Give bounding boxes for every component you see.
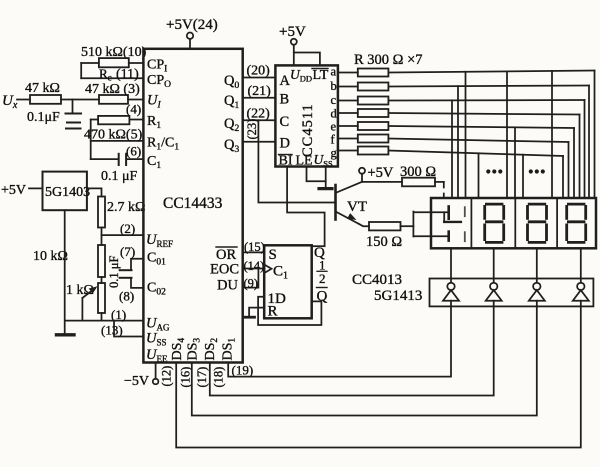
svg-text:(11): (11)	[116, 67, 139, 82]
wire pin11 row CPo	[81, 77, 143, 79]
svg-text:R 300 Ω ×7: R 300 Ω ×7	[354, 52, 423, 68]
svg-text:b: b	[331, 79, 337, 93]
clock triangle input C1	[264, 265, 271, 274]
wire segment drop digit2 from row a	[465, 72, 467, 198]
resistor Rf 300 with wires row f	[338, 138, 358, 140]
resistor 10k	[98, 245, 105, 277]
wire USS to ground	[325, 167, 327, 188]
svg-text:+5V(24): +5V(24)	[166, 17, 218, 33]
wire DS1 to driver 1	[228, 306, 451, 376]
capacitor 0.1uF between C01 and C02	[131, 259, 143, 269]
svg-text:+5V: +5V	[1, 183, 26, 198]
resistor Ra 300 with wires row a	[338, 72, 358, 74]
svg-text:(9): (9)	[244, 277, 259, 291]
wire segment drop digit2 from row g	[478, 153, 480, 198]
wire display common 4 to driver 4	[580, 248, 582, 282]
svg-text:(15): (15)	[244, 240, 265, 254]
ellipsis dots omitted wires digit3	[529, 169, 545, 173]
svg-text:C: C	[280, 114, 290, 130]
transistor VT collector	[337, 182, 362, 193]
wire 1k bottom to AG rail	[101, 313, 103, 321]
svg-text:47 kΩ (3): 47 kΩ (3)	[85, 82, 140, 97]
driver array body	[430, 279, 594, 307]
wire DS3 to driver 3	[192, 306, 537, 415]
seven segment digit 1	[485, 204, 504, 242]
wire Rc loop left vertical	[80, 63, 82, 78]
wire 10k to 1k	[101, 277, 103, 283]
resistor Rc300 with wires row c	[338, 100, 358, 102]
svg-text:(23): (23)	[245, 119, 259, 140]
potentiometer 1k	[98, 283, 105, 313]
resistor 300 ohm collector	[402, 178, 435, 187]
wire BI to flipflop Q	[287, 167, 325, 247]
resistor 150 ohm emitter	[369, 222, 401, 230]
svg-text:−5V: −5V	[124, 374, 149, 389]
svg-text:S: S	[269, 247, 277, 263]
wire staircase drop row c	[584, 100, 586, 198]
wire Q2 to C pin 22	[243, 119, 276, 121]
wire display common 2 to driver 2	[493, 248, 495, 282]
resistor 470k between pin 4 and pin 5	[98, 116, 129, 124]
half digit upper lead	[431, 211, 449, 213]
wire display common 3 to driver 3	[536, 248, 538, 282]
wire Q output up to BI	[312, 245, 325, 247]
resistor Rd 300 with wires row d	[338, 112, 358, 114]
wire Q2 node to transistor base	[258, 120, 334, 202]
transistor VT emitter with arrow	[337, 212, 359, 224]
svg-text:d: d	[331, 107, 338, 121]
capacitor C1 0.1uF pin5 to pin6	[91, 158, 118, 160]
svg-text:(19): (19)	[232, 363, 254, 378]
wire staircase drop row g	[562, 156, 564, 198]
ellipsis dots omitted wires digit2	[486, 169, 502, 173]
IC U3 CC4511 body	[275, 65, 338, 166]
wire Q0 to A pin 20	[243, 77, 276, 79]
svg-text:c: c	[331, 93, 337, 107]
svg-text:(4): (4)	[126, 102, 141, 117]
wire DS2 to driver 2	[210, 306, 494, 395]
svg-text:0.1μF: 0.1μF	[27, 110, 60, 125]
display module body	[431, 198, 596, 248]
svg-text:LT: LT	[313, 68, 329, 83]
regulator U2 5G1403	[43, 172, 87, 211]
driver buffer 4	[577, 283, 584, 290]
svg-text:(8): (8)	[119, 289, 134, 304]
svg-text:5G1403: 5G1403	[45, 185, 90, 200]
wire +5V to 5G1403	[29, 187, 43, 189]
capacitor 0.1uF input filter	[72, 100, 74, 113]
wire junction between 47k resistors	[61, 99, 99, 101]
wire left vertical pin4 to pin6	[90, 120, 92, 160]
wiper arrow of 1k pot	[81, 298, 83, 321]
wire pin 13 Uss tie to rail	[114, 321, 143, 337]
wire 47k to chip pin 3	[128, 99, 143, 101]
wire EOC pin14 to C1 clock	[243, 268, 265, 270]
svg-text:150 Ω: 150 Ω	[366, 234, 402, 250]
svg-text:CC4013: CC4013	[352, 272, 402, 288]
wire 5G1403 bottom to ground	[64, 210, 66, 333]
resistor 47k first	[30, 95, 61, 104]
wire 150 ohm to half digit segments bracket	[401, 225, 414, 227]
wire DU pin9 joins EOC wire	[243, 269, 259, 288]
wire staircase drop row e	[573, 128, 575, 198]
IC U1 CC14433 body	[143, 49, 242, 363]
seven segment digit 2	[528, 204, 547, 242]
svg-text:(12): (12)	[160, 366, 174, 387]
resistor 2.7k	[98, 197, 105, 228]
half digit unlit segment lower	[464, 232, 466, 241]
wire emitter to 150 ohm	[359, 224, 370, 227]
wire 2.7k to 10k	[101, 228, 103, 246]
transistor VT base bar	[334, 185, 337, 220]
half digit lower lead	[431, 235, 449, 237]
wire segment drop digit4 from row a left	[551, 71, 553, 198]
wire segment drop digit2 from row b	[457, 86, 459, 198]
svg-text:(18): (18)	[212, 367, 226, 388]
wire DS4 to driver 4	[176, 306, 581, 447]
ground bar	[57, 333, 75, 336]
svg-text:VT: VT	[347, 199, 367, 215]
svg-text:DU: DU	[217, 278, 238, 294]
ground bar for R	[244, 316, 255, 319]
svg-text:2: 2	[319, 271, 326, 286]
display cell separator 3	[556, 198, 558, 248]
wire Q3 to D pin 23	[243, 141, 276, 143]
svg-text:CC4511: CC4511	[300, 103, 316, 157]
half digit segment b bar	[447, 207, 450, 219]
wire segment drop digit3 from row e	[514, 127, 516, 198]
wire staircase drop row b	[588, 86, 590, 199]
svg-text:(16): (16)	[179, 367, 193, 388]
resistor Rg 300 with wires row g	[338, 150, 358, 152]
half digit unlit segment upper	[464, 207, 466, 216]
wire pin10 row	[81, 62, 99, 64]
wire 300 ohm to half-digit common, dashed drop	[435, 181, 444, 183]
resistor Rb 300 with wires row b	[338, 86, 358, 88]
wire LE to ground	[307, 167, 326, 182]
svg-text:5G1413: 5G1413	[374, 288, 422, 304]
svg-text:e: e	[331, 120, 337, 134]
wire staircase drop row f	[568, 142, 570, 198]
wire 470k right lead to pin 4	[129, 119, 143, 121]
svg-text:0.1 μF: 0.1 μF	[107, 256, 121, 288]
half digit segment c bar	[447, 232, 450, 241]
svg-text:(2): (2)	[120, 221, 135, 236]
wire segment drop digit3 from row a	[506, 71, 508, 198]
driver buffer 1	[447, 283, 454, 290]
svg-text:(14): (14)	[244, 259, 265, 273]
resistor 47k second, pin 3	[99, 95, 128, 104]
svg-text:CC14433: CC14433	[163, 195, 223, 212]
power pin UEE -5V terminal	[155, 363, 157, 379]
driver buffer 3	[533, 283, 540, 290]
wire Qbar feedback to 1D	[258, 297, 321, 325]
svg-text:BI: BI	[279, 154, 293, 169]
half digit minus sign lead	[443, 212, 445, 222]
driver buffer 2	[490, 283, 497, 290]
wire Ux to R input	[17, 99, 30, 101]
svg-text:(17): (17)	[195, 367, 209, 388]
svg-text:2.7 kΩ: 2.7 kΩ	[107, 200, 145, 215]
wire staircase drop row a	[594, 71, 596, 199]
svg-text:1 kΩ: 1 kΩ	[66, 283, 94, 298]
wire U_AG rail pin 1	[65, 320, 143, 322]
wire segment drop digit2 from row c	[451, 100, 453, 198]
flip-flop U4 half CC4013 body	[264, 245, 312, 318]
wire pin 2 Uref row	[102, 234, 144, 236]
wire collector to 300 ohm	[362, 181, 402, 183]
svg-text:47 kΩ: 47 kΩ	[25, 81, 60, 96]
svg-text:10 kΩ: 10 kΩ	[33, 249, 68, 264]
wire Q1 to B pin 21	[243, 97, 276, 99]
wire OR pin15 to S	[243, 251, 265, 253]
svg-text:LE: LE	[296, 154, 313, 169]
svg-text:(7): (7)	[120, 244, 135, 259]
svg-text:(13): (13)	[101, 323, 123, 338]
seven segment digit 3	[567, 204, 586, 242]
svg-text:470 kΩ(5): 470 kΩ(5)	[84, 128, 143, 143]
svg-text:R: R	[268, 304, 278, 320]
svg-text:A: A	[280, 73, 291, 89]
wire R to ground	[249, 308, 264, 317]
power terminal +5V for display anodes	[359, 168, 365, 174]
svg-text:g: g	[331, 146, 338, 160]
wire 5G1403 output to divider top	[87, 188, 102, 196]
svg-text:0.1 μF: 0.1 μF	[101, 169, 138, 184]
svg-text:EOC: EOC	[210, 262, 239, 278]
resistor Re 300 with wires row e	[338, 125, 358, 127]
svg-text:(6): (6)	[126, 144, 141, 159]
svg-text:(21): (21)	[248, 84, 272, 99]
svg-text:+5V: +5V	[279, 24, 306, 40]
half digit minus sign	[444, 221, 461, 223]
svg-text:D: D	[280, 136, 290, 152]
svg-text:B: B	[280, 92, 290, 108]
ground bar for CC4511	[319, 187, 332, 190]
wire pin 5 row	[91, 140, 144, 142]
wire display common 1 to driver 1	[450, 248, 452, 282]
wire segment drop digit3 from row g	[522, 155, 524, 198]
wire +5V to UDD and LT	[294, 45, 320, 66]
svg-text:a: a	[331, 65, 337, 79]
svg-text:(20): (20)	[247, 64, 271, 79]
wire staircase drop row d	[579, 115, 581, 199]
display cell separator 1	[470, 198, 472, 248]
display cell separator 2	[514, 198, 516, 248]
wire 470k left lead	[91, 119, 98, 121]
svg-text:+5V: +5V	[368, 165, 394, 181]
